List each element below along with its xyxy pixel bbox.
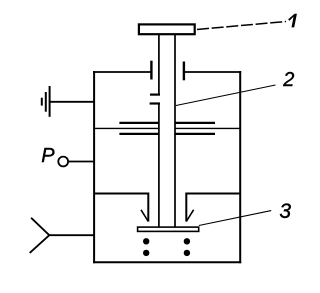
top cap plate 1 [139, 24, 195, 34]
label P [41, 145, 55, 167]
svg-text:3: 3 [279, 200, 291, 223]
bottom plate 3 [138, 227, 199, 231]
contact dot top-left [143, 238, 149, 244]
chamber right wall [239, 71, 241, 263]
chamber left wall [93, 71, 95, 263]
chamber bottom wall [93, 261, 241, 263]
label 3 [279, 200, 291, 223]
leader line 3 [199, 211, 271, 226]
contact dot bottom-left [143, 250, 149, 256]
svg-text:2: 2 [282, 69, 294, 91]
label 2 [282, 69, 294, 91]
lower electrode plate right [175, 133, 215, 135]
chamber top wall right segment [184, 71, 241, 73]
terminal P circle [58, 157, 68, 167]
left flange bar [150, 61, 152, 80]
ground symbol [42, 86, 94, 117]
gland tick upper [150, 93, 160, 95]
terminal P wire [68, 161, 94, 163]
shaft left line lower [158, 104, 160, 227]
shaft left line upper [158, 35, 160, 95]
contact dot top-right [184, 238, 190, 244]
lower electrode plate left [119, 133, 158, 135]
right flow arrow [186, 194, 240, 222]
svg-text:P: P [41, 145, 55, 167]
gland tick lower [150, 102, 160, 104]
upper electrode plate right [175, 122, 215, 124]
label 1 [288, 14, 297, 28]
leader line 1 (dashed) [197, 22, 286, 30]
left flow arrow [94, 194, 148, 222]
leader line 2 [176, 85, 276, 106]
chamber top wall left segment [93, 71, 151, 73]
upper electrode plate left [119, 122, 158, 124]
right flange bar [183, 62, 185, 81]
pump chevron symbol [30, 218, 94, 253]
shaft right line [174, 35, 176, 227]
baffle line right [175, 127, 240, 129]
contact dot bottom-right [184, 250, 190, 256]
baffle line left [94, 127, 159, 129]
